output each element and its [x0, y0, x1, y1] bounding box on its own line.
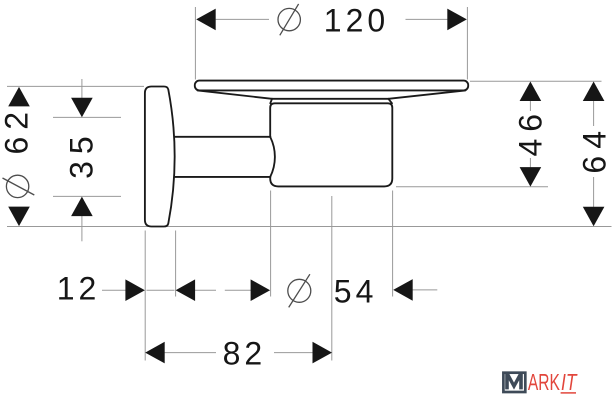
arrow 54 left	[251, 279, 271, 301]
arm top line	[175, 136, 271, 138]
dish neck line	[272, 98, 388, 100]
logo IT underline	[561, 392, 576, 394]
dish flare left	[270, 99, 272, 104]
arrow 120 right	[447, 9, 467, 31]
dim 12 seg a	[102, 289, 127, 291]
soap dish plate top view side	[195, 81, 468, 91]
arrow 64 top	[583, 82, 605, 102]
arrow 82 left	[145, 342, 165, 364]
dim 46 upper vertical seg	[529, 99, 531, 111]
logo MARKIT box	[503, 373, 525, 392]
dish taper right	[388, 90, 465, 98]
ext line plate bottom	[7, 226, 612, 228]
ext line dish top horizontal	[470, 80, 602, 82]
dim 54 right trailing seg	[412, 289, 437, 291]
arrow 46 top	[520, 82, 542, 102]
arrow 46 bottom	[520, 167, 542, 187]
svg-text:82: 82	[223, 336, 267, 372]
arrow 62 top	[8, 87, 30, 107]
svg-text:54: 54	[334, 274, 378, 310]
arrow 62 bottom	[8, 207, 30, 227]
ext line cylinder center vertical	[331, 196, 333, 361]
ext line cylinder left vertical	[270, 191, 272, 297]
ext line 35 bottom	[53, 195, 121, 197]
ext line plate right vertical	[175, 231, 177, 297]
diameter symbol 62 (rotated)	[6, 175, 28, 197]
dim 46 lower vertical seg	[529, 158, 531, 168]
wall plate	[145, 87, 175, 227]
arrow 35 bottom	[71, 197, 93, 217]
dim 35 lower vertical seg	[81, 210, 83, 242]
svg-text:IT: IT	[561, 369, 578, 395]
svg-text:62: 62	[0, 105, 35, 155]
svg-text:120: 120	[324, 2, 389, 38]
dim 54 leader seg b	[225, 289, 252, 291]
svg-text:ARK: ARK	[528, 369, 560, 395]
arrow 54 right	[393, 279, 413, 301]
arrow 82 right	[313, 342, 333, 364]
ext line cylinder bottom horizontal	[396, 186, 548, 188]
logo M	[505, 374, 523, 390]
arrow 12 left	[125, 279, 144, 301]
svg-text:64: 64	[577, 124, 613, 174]
dim 12 seg between	[147, 289, 175, 291]
ext line 35 top	[53, 116, 121, 118]
holder cylinder	[270, 103, 392, 186]
ext line cylinder right vertical	[392, 191, 394, 297]
ext line dish left	[194, 7, 196, 80]
arrow 35 top	[71, 98, 93, 118]
arrow 120 left	[196, 9, 216, 31]
arrow 64 bottom	[583, 207, 605, 227]
arm bottom line	[175, 176, 271, 178]
dim 35 upper vertical seg	[81, 79, 83, 104]
diameter symbol 120	[278, 8, 300, 30]
dim 64 lower vertical seg	[593, 177, 595, 208]
dim 54 leader seg a	[195, 289, 216, 291]
dim 82 left seg	[164, 352, 216, 354]
dish taper left	[198, 90, 272, 98]
svg-text:35: 35	[64, 129, 100, 179]
diameter symbol 54	[288, 279, 311, 302]
ext line plate top	[7, 85, 144, 87]
svg-text:46: 46	[513, 107, 549, 157]
ext line dish right	[466, 7, 468, 80]
dim line 120 left seg	[216, 18, 269, 20]
arrow 12 right	[176, 279, 196, 301]
dim 82 right seg	[274, 352, 314, 354]
dish flare right	[388, 99, 392, 104]
svg-text:12: 12	[57, 271, 101, 307]
dim line 120 right seg	[406, 18, 449, 20]
ext line wall surface vertical	[144, 231, 146, 361]
dim 64 upper vertical seg	[593, 100, 595, 126]
